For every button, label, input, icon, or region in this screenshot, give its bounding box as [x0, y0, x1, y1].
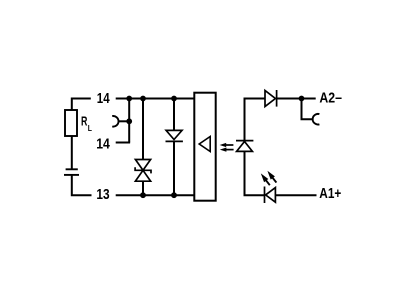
series diode D2 [265, 90, 277, 107]
junction contact node [126, 118, 132, 124]
junction A2- node [299, 96, 305, 102]
optocoupler LED [236, 141, 253, 152]
socket contact (A2 side) [313, 114, 320, 125]
wire from second 14 label to contact branch [116, 142, 130, 144]
indicator LED [265, 187, 276, 204]
wire contact branch vertical [128, 99, 130, 143]
svg-text:14: 14 [97, 91, 110, 107]
capacitor C1 [64, 169, 79, 175]
wire TVS branch upper [142, 99, 144, 160]
wire from opto LED up and right to series diode [245, 99, 266, 141]
junction bottom rail at diode branch [171, 192, 177, 198]
wire series diode to A2- [277, 98, 316, 100]
wire opto LED down to A1 line [245, 151, 265, 195]
socket contact (relay plug) [112, 116, 118, 127]
indicator LED emission arrows [261, 171, 277, 185]
wire top rail 14 to driver box [116, 98, 194, 100]
wire RL to capacitor [71, 136, 73, 169]
wire indicator LED to A1+ [275, 194, 316, 196]
svg-text:A1+: A1+ [319, 186, 341, 202]
label RL [81, 113, 92, 133]
wire diode branch upper [173, 99, 175, 131]
light arrows into driver [220, 143, 234, 152]
svg-text:14: 14 [96, 136, 110, 152]
diode D1 (freewheeling) [166, 130, 183, 141]
wire top-left from RL corner to label 14 [72, 99, 91, 111]
wire stub down from A2- junction [302, 99, 314, 120]
resistor RL [65, 110, 77, 136]
svg-text:L: L [88, 124, 92, 133]
wire bottom rail 13 to driver box [116, 194, 194, 196]
output driver box U1 [194, 93, 215, 201]
svg-text:A2–: A2– [319, 91, 342, 107]
svg-text:13: 13 [96, 187, 109, 203]
wire diode branch lower [173, 141, 175, 195]
junction top rail at diode branch [171, 96, 177, 102]
wire capacitor to terminal 13 [72, 175, 92, 195]
junction top rail at TVS branch [140, 96, 146, 102]
wire TVS branch lower [142, 181, 144, 195]
driver triangle (photoreceiver) [199, 137, 210, 152]
wire socket contact to junction [119, 120, 130, 122]
svg-text:R: R [81, 113, 87, 128]
junction bottom rail at TVS branch [140, 192, 146, 198]
TVS suppressor diode (bidirectional) [135, 160, 151, 182]
junction top rail at contact branch [126, 96, 132, 102]
